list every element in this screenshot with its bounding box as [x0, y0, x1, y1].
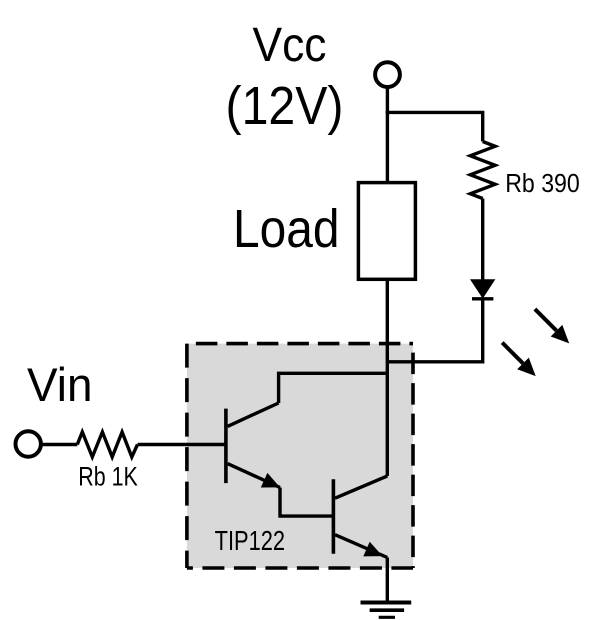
wire Vcc branch to Rb390 — [386, 112, 483, 141]
wire Rb1K to Q1 base — [138, 443, 226, 446]
wire Q1 emitter to Q2 base — [280, 488, 333, 517]
wire LED cathode to collector rail — [387, 299, 482, 362]
terminal Vcc — [375, 62, 400, 87]
svg-text:(12V): (12V) — [226, 76, 344, 136]
svg-text:Load: Load — [233, 200, 340, 259]
wire Vin terminal to Rb1K — [43, 443, 78, 446]
svg-text:Rb 1K: Rb 1K — [78, 462, 138, 492]
LED D1 — [471, 280, 494, 299]
wire Rb390 to LED — [481, 199, 484, 281]
resistor Rb 1K — [77, 432, 137, 457]
load (rect) — [358, 183, 415, 280]
terminal Vin — [16, 431, 41, 456]
ground — [361, 603, 412, 618]
svg-text:Rb 390: Rb 390 — [505, 168, 580, 198]
wire Load bottom / collector rail — [386, 279, 389, 476]
light emission arrow 2 — [502, 343, 536, 377]
transistor Q1 — [226, 403, 280, 488]
svg-text:Vin: Vin — [27, 358, 93, 411]
svg-text:TIP122: TIP122 — [215, 525, 286, 556]
transistor Q2 — [333, 476, 387, 558]
wire Vcc terminal to Load top — [386, 88, 389, 183]
svg-text:Vcc: Vcc — [253, 18, 327, 72]
TIP122 package box — [187, 344, 413, 568]
light emission arrow 1 — [535, 309, 569, 343]
wire Q1 collector to rail — [279, 373, 388, 403]
wire Q2 emitter to ground — [386, 558, 389, 602]
resistor Rb 390 — [470, 142, 495, 199]
